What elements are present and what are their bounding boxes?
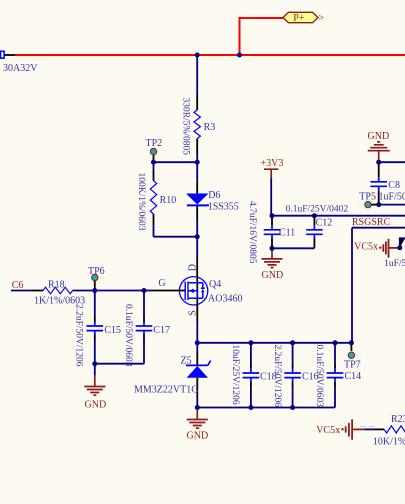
svg-text:GND: GND: [187, 431, 209, 442]
svg-text:0.1uF/50V/0603: 0.1uF/50V/0603: [123, 304, 133, 367]
svg-text:TP2: TP2: [146, 138, 163, 149]
svg-text:RSGSRC: RSGSRC: [352, 217, 391, 228]
svg-text:4.7uF/16V/0805: 4.7uF/16V/0805: [247, 201, 257, 264]
svg-text:10uF/25V/1206: 10uF/25V/1206: [230, 345, 240, 405]
svg-text:10K/1%/0603: 10K/1%/0603: [373, 436, 405, 447]
svg-text:2.2uF/50V/1206: 2.2uF/50V/1206: [272, 345, 282, 408]
svg-text:GND: GND: [262, 270, 284, 281]
svg-text:30A32V: 30A32V: [3, 63, 38, 74]
svg-text:C17: C17: [153, 325, 170, 336]
svg-text:P+: P+: [293, 13, 305, 24]
svg-text:330R/5%/0805: 330R/5%/0805: [180, 98, 190, 156]
svg-text:2.2uF/50V/1206: 2.2uF/50V/1206: [74, 304, 84, 367]
svg-text:C14: C14: [345, 371, 362, 382]
svg-text:1uF/5: 1uF/5: [384, 259, 405, 269]
svg-text:R23: R23: [391, 414, 405, 425]
svg-text:D: D: [187, 264, 198, 271]
svg-text:R3: R3: [204, 122, 216, 133]
svg-text:+3V3: +3V3: [261, 158, 284, 169]
svg-text:>: >: [319, 13, 325, 24]
svg-text:C15: C15: [104, 325, 121, 336]
svg-text:D6: D6: [208, 190, 220, 201]
svg-text:GND: GND: [368, 131, 390, 142]
svg-text:TP7: TP7: [344, 360, 361, 371]
svg-text:C12: C12: [316, 218, 333, 229]
svg-text:C8: C8: [388, 180, 400, 191]
svg-text:0.1uF/50V/0603: 0.1uF/50V/0603: [314, 345, 324, 408]
svg-text:VC5x: VC5x: [316, 425, 340, 436]
svg-text:Q4: Q4: [209, 279, 221, 290]
svg-text:100K/1%/0603: 100K/1%/0603: [136, 173, 146, 231]
svg-text:Z5: Z5: [181, 356, 192, 367]
svg-text:AO3460: AO3460: [208, 294, 242, 305]
svg-text:1uF/50: 1uF/50: [379, 191, 405, 202]
svg-text:1SS355: 1SS355: [208, 202, 239, 213]
svg-text:GND: GND: [85, 400, 107, 411]
svg-text:VC5x: VC5x: [354, 241, 378, 252]
svg-text:0.1uF/25V/0402: 0.1uF/25V/0402: [286, 205, 349, 215]
svg-text:R10: R10: [160, 195, 177, 206]
svg-text:R18: R18: [48, 279, 65, 290]
svg-text:C11: C11: [279, 228, 295, 239]
svg-text:C6: C6: [12, 280, 24, 291]
svg-text:MM3Z22VT1G: MM3Z22VT1G: [134, 385, 198, 396]
svg-text:TP5: TP5: [359, 191, 376, 202]
svg-text:G: G: [158, 278, 165, 289]
